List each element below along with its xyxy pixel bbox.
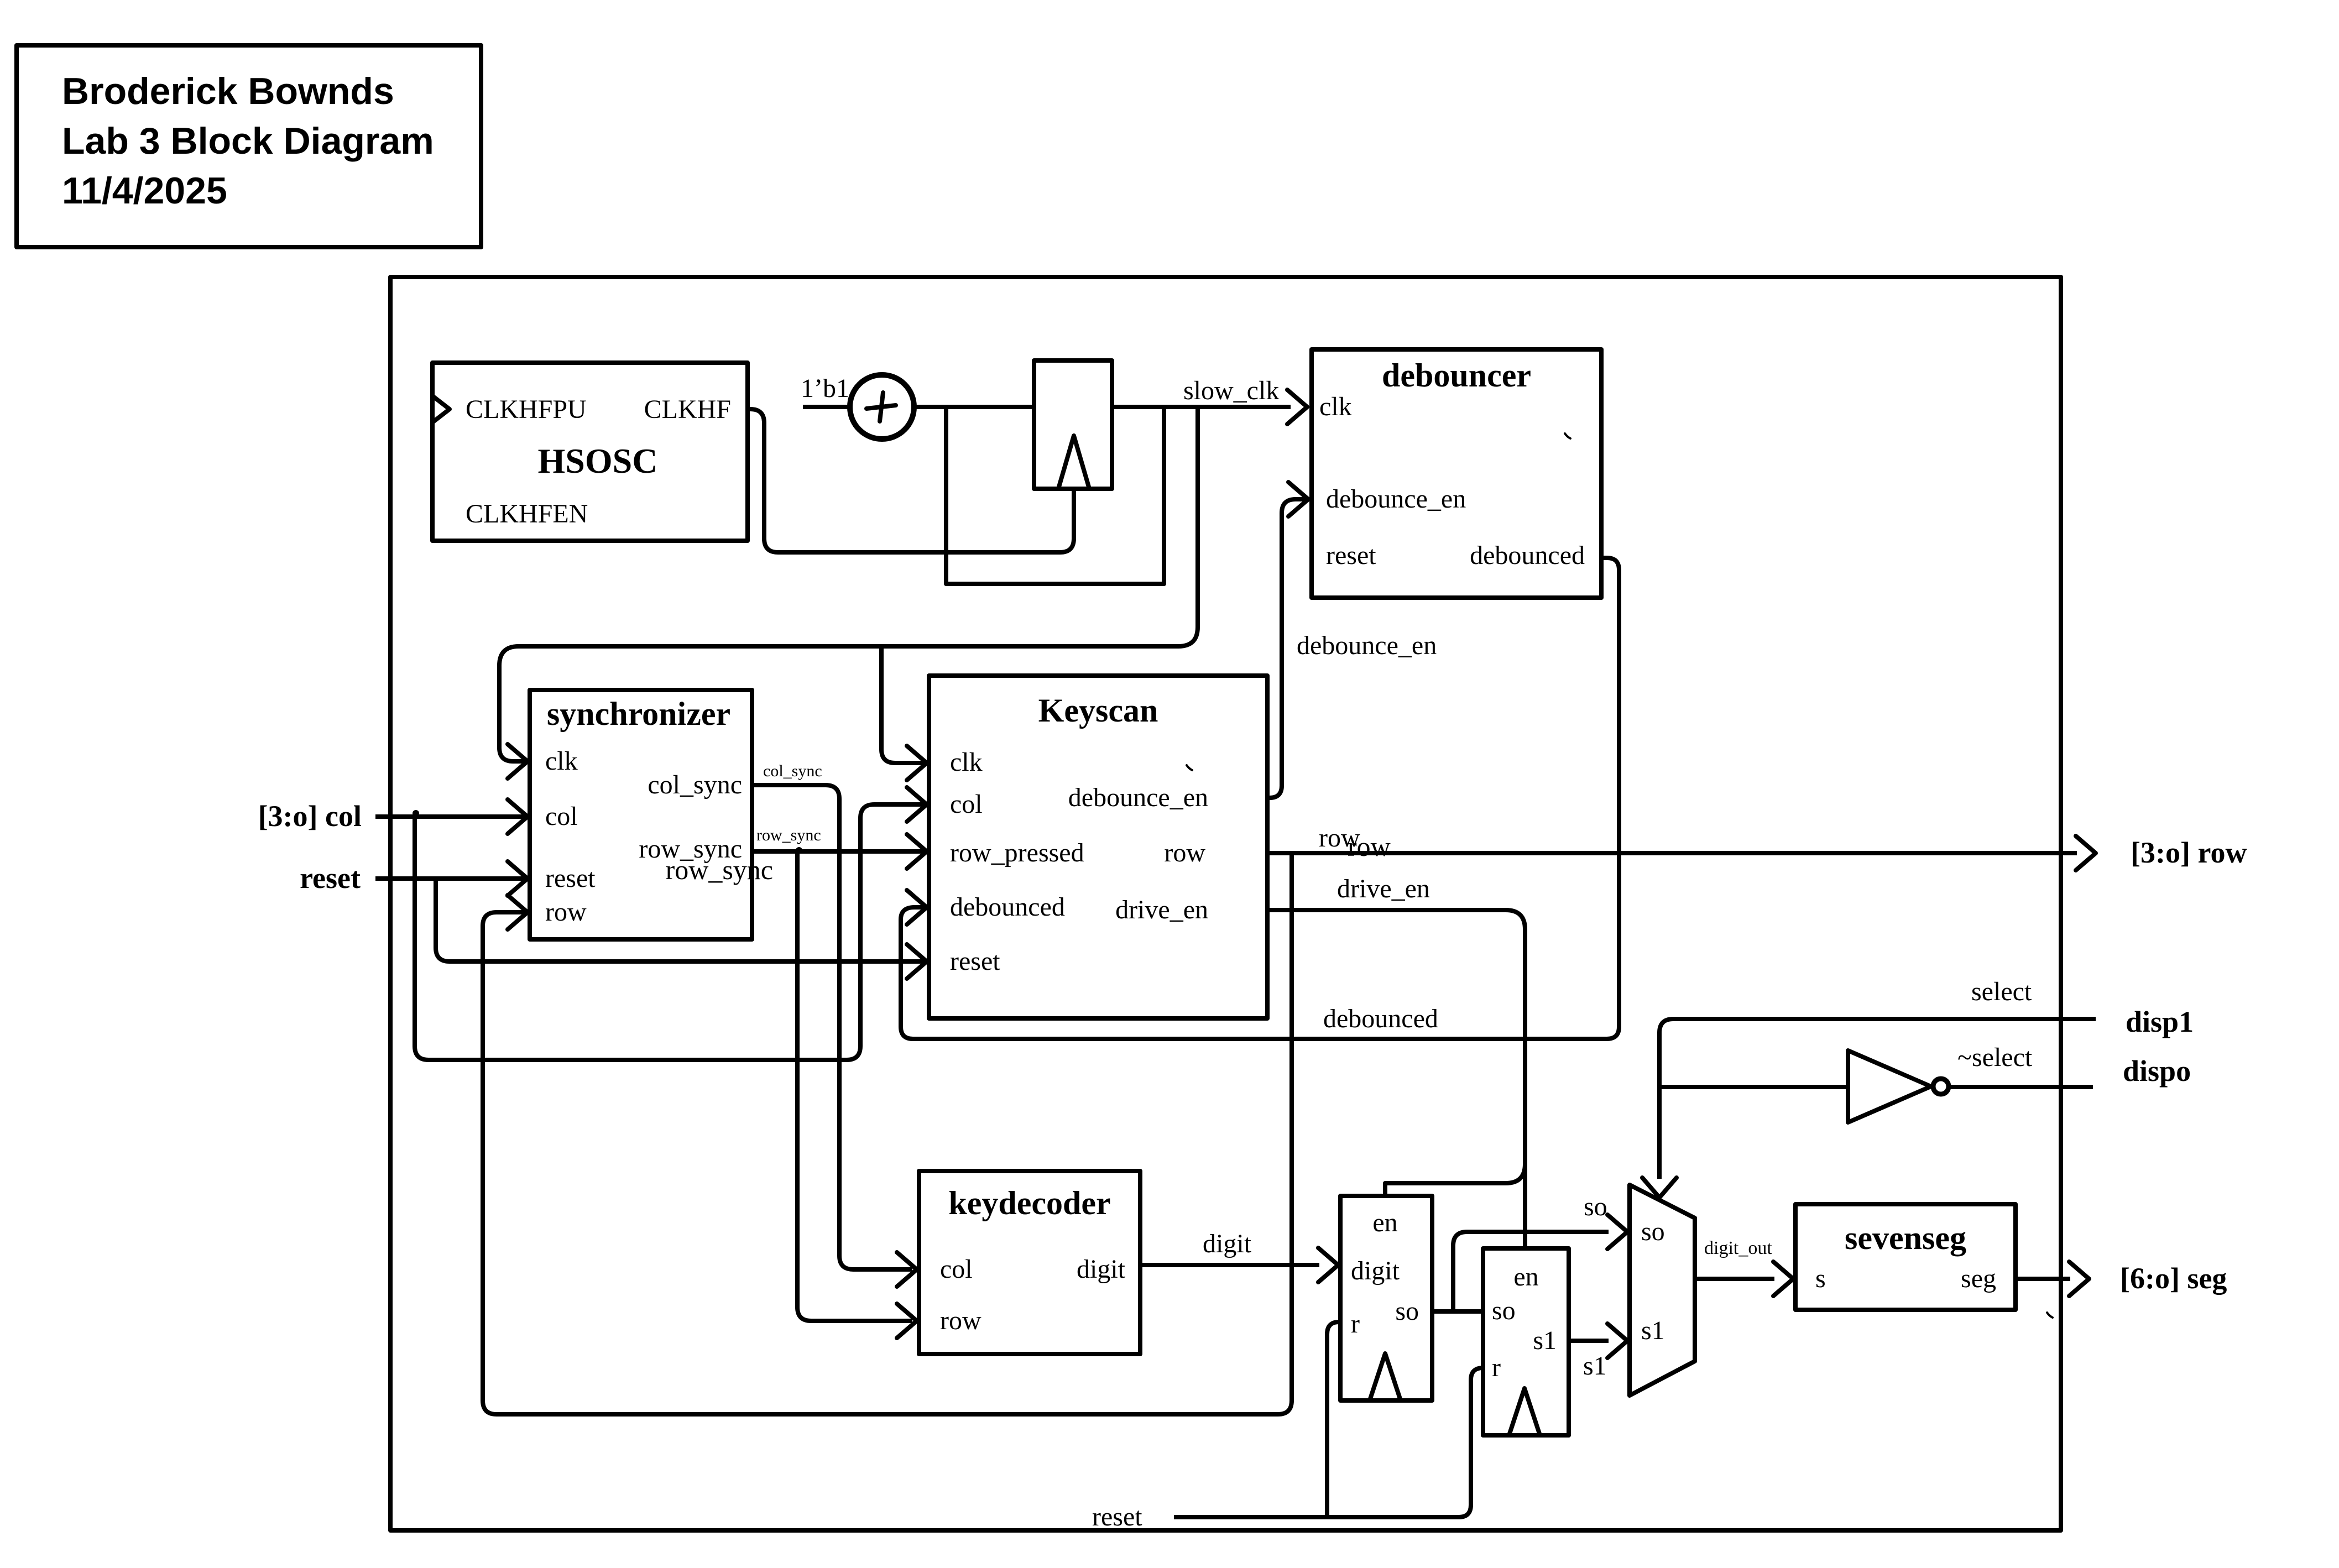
wire adder output to flip-flop D (914, 405, 1034, 409)
svg-text:col: col (950, 790, 983, 819)
svg-text:CLKHFPU: CLKHFPU (466, 395, 587, 424)
svg-text:11/4/2025: 11/4/2025 (62, 170, 227, 212)
svg-text:col_sync: col_sync (763, 762, 822, 780)
svg-text:synchronizer: synchronizer (547, 696, 730, 732)
adder (850, 375, 914, 439)
stray mark 2 (1187, 765, 1192, 770)
svg-text:reset: reset (950, 947, 1000, 976)
svg-text:s1: s1 (1583, 1351, 1607, 1381)
svg-text:s: s (1815, 1264, 1826, 1293)
wire keydecoder digit to register1 digit (1140, 1263, 1319, 1267)
wire drive_en down to register enables (1267, 910, 1525, 1248)
svg-text:digit: digit (1077, 1255, 1126, 1284)
svg-text:~select: ~select (1957, 1043, 2033, 1072)
svg-text:CLKHFEN: CLKHFEN (466, 499, 588, 529)
svg-text:seg: seg (1961, 1264, 1996, 1293)
svg-text:reset: reset (545, 864, 596, 893)
svg-text:en: en (1372, 1208, 1397, 1237)
svg-text:r: r (1351, 1309, 1360, 1339)
svg-text:dispo: dispo (2123, 1054, 2191, 1088)
svg-text:debounced: debounced (1470, 541, 1585, 570)
svg-text:so: so (1492, 1296, 1516, 1325)
svg-text:row_sync: row_sync (756, 826, 821, 844)
svg-text:row: row (940, 1306, 981, 1335)
svg-text:row: row (1348, 831, 1391, 862)
svg-text:[6:o] seg: [6:o] seg (2120, 1262, 2227, 1295)
wire col branch to Keyscan col (415, 804, 925, 1060)
mux (1630, 1185, 1695, 1395)
svg-text:col: col (940, 1255, 973, 1284)
svg-text:digit: digit (1203, 1229, 1252, 1258)
HSOSC clock chevron (432, 396, 450, 422)
svg-text:row: row (545, 897, 587, 927)
clock divider flip-flop (1034, 360, 1112, 489)
outer border (390, 277, 2061, 1530)
svg-text:drive_en: drive_en (1115, 895, 1208, 924)
svg-text:disp1: disp1 (2126, 1005, 2194, 1038)
svg-text:keydecoder: keydecoder (948, 1185, 1110, 1221)
block sevenseg (1795, 1204, 2016, 1310)
svg-text:s1: s1 (1533, 1326, 1557, 1355)
block keydecoder (919, 1171, 1140, 1354)
stray mark 1 (1565, 433, 1570, 438)
wire Keyscan debounce_en to debouncer debounce_en (1267, 499, 1305, 798)
wire HSOSC CLKHF to divider flip-flop clock (748, 409, 1074, 552)
register1 flip-flop (1340, 1196, 1432, 1400)
wire slow_clk to debouncer clk (1112, 405, 1291, 409)
wire [3:0] col input to synchronizer col (375, 814, 525, 819)
svg-text:row: row (1164, 838, 1205, 867)
title box (17, 45, 481, 247)
svg-text:debounce_en: debounce_en (1326, 484, 1466, 514)
wire reset branch to Keyscan reset (436, 879, 925, 961)
svg-text:Keyscan: Keyscan (1038, 692, 1158, 729)
wire select to disp1 and mux select (1659, 1019, 2096, 1179)
inverter U1 (1848, 1050, 1931, 1122)
wire sevenseg seg to [6:0] seg output (2016, 1277, 2070, 1281)
block debouncer (1312, 349, 1601, 598)
svg-text:s1: s1 (1641, 1316, 1665, 1345)
wire reset bottom line to register2 r (1174, 1368, 1483, 1517)
svg-text:clk: clk (950, 748, 983, 777)
svg-text:reset: reset (1326, 541, 1376, 570)
wire row_sync to Keyscan row_pressed (752, 849, 925, 854)
svg-text:slow_clk: slow_clk (1183, 376, 1279, 405)
svg-text:col: col (545, 802, 578, 831)
svg-text:debounce_en: debounce_en (1068, 783, 1208, 812)
wire 1'b1 into adder (803, 405, 850, 409)
wire register2 s1 to mux s1 (1569, 1339, 1609, 1343)
svg-text:1’b1: 1’b1 (801, 374, 849, 403)
svg-text:debounced: debounced (950, 892, 1065, 922)
wire mux digit_out to sevenseg s (1695, 1277, 1774, 1281)
junction dot col branch (413, 810, 419, 817)
svg-text:drive_en: drive_en (1337, 874, 1430, 903)
svg-text:en: en (1513, 1262, 1538, 1292)
svg-text:clk: clk (545, 746, 578, 776)
stray mark 3 (2047, 1313, 2053, 1318)
wire reset input to synchronizer reset (375, 876, 525, 881)
svg-text:HSOSC: HSOSC (538, 441, 658, 480)
svg-text:col_sync: col_sync (648, 770, 742, 799)
wire debouncer debounced to Keyscan debounced (901, 558, 1619, 1039)
wire col_sync to keydecoder col (752, 785, 912, 1269)
svg-text:so: so (1395, 1297, 1419, 1326)
junction dot row_sync branch (796, 847, 802, 854)
block HSOSC (432, 363, 748, 541)
wire row feedback from Keyscan row to synchronizer row (483, 853, 1292, 1414)
wire reset to register1 r (1327, 1322, 1340, 1517)
wire drive_en branch to register1 en (1385, 1164, 1525, 1195)
wire s0 branch to mux s0 (1453, 1232, 1609, 1311)
wire divider feedback loop (946, 407, 1164, 584)
wire slow_clk branch down to synchronizer clk (499, 407, 1198, 761)
svg-text:debounced: debounced (1323, 1004, 1438, 1033)
svg-text:debouncer: debouncer (1382, 357, 1531, 394)
svg-text:digit: digit (1351, 1256, 1400, 1285)
svg-text:[3:o] row: [3:o] row (2131, 836, 2247, 869)
svg-text:reset: reset (1092, 1502, 1142, 1532)
block Keyscan (929, 676, 1267, 1018)
svg-text:so: so (1584, 1192, 1607, 1221)
register2 flip-flop (1483, 1248, 1569, 1435)
svg-text:Broderick Bownds: Broderick Bownds (62, 70, 394, 112)
svg-text:sevenseg: sevenseg (1845, 1220, 1966, 1256)
wire row_sync branch to keydecoder row (797, 851, 912, 1321)
block synchronizer (530, 690, 752, 939)
svg-text:select: select (1971, 977, 2032, 1006)
wire inverter output to disp0 (1949, 1085, 2093, 1089)
svg-text:CLKHF: CLKHF (644, 395, 731, 424)
svg-text:digit_out: digit_out (1704, 1238, 1772, 1258)
wire slow_clk branch to Keyscan clk (881, 646, 925, 763)
svg-text:[3:o] col: [3:o] col (258, 799, 362, 833)
svg-text:row_pressed: row_pressed (950, 838, 1084, 867)
svg-text:clk: clk (1319, 392, 1352, 421)
svg-text:row_sync: row_sync (666, 854, 773, 885)
svg-text:debounce_en: debounce_en (1297, 631, 1437, 660)
wire select tap to inverter input (1659, 1085, 1848, 1089)
svg-text:Lab 3 Block Diagram: Lab 3 Block Diagram (62, 120, 434, 162)
wire Keyscan row to [3:0] row output (1267, 851, 2077, 855)
svg-text:so: so (1641, 1217, 1665, 1246)
wire register1 s0 to register2 s0 (1432, 1309, 1483, 1314)
svg-text:reset: reset (300, 861, 361, 895)
svg-text:r: r (1492, 1353, 1501, 1382)
